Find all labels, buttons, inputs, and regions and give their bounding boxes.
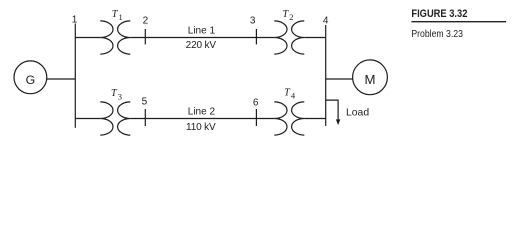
- svg-text:FIGURE 3.32: FIGURE 3.32: [411, 8, 467, 20]
- load arrowhead: [336, 119, 340, 125]
- svg-text:Problem 3.23: Problem 3.23: [411, 28, 463, 40]
- wire: generator to bus 1: [47, 78, 76, 80]
- svg-text:T2: T2: [283, 9, 294, 22]
- node 2 tick: [144, 29, 146, 44]
- transformer T3: [100, 102, 130, 135]
- svg-text:5: 5: [142, 97, 148, 108]
- svg-text:1: 1: [72, 15, 78, 26]
- node 5 tick: [144, 109, 146, 126]
- svg-text:2: 2: [143, 16, 149, 27]
- generator G: [14, 61, 47, 94]
- svg-text:T1: T1: [112, 9, 123, 22]
- svg-text:6: 6: [253, 97, 259, 108]
- load tap wire: [326, 100, 338, 120]
- wire: bus 1 to transformer T1: [75, 37, 100, 39]
- svg-text:M: M: [365, 72, 376, 87]
- motor M: [353, 60, 388, 95]
- transformer T2: [274, 21, 304, 54]
- svg-text:G: G: [26, 73, 36, 87]
- svg-text:110 kV: 110 kV: [186, 122, 216, 133]
- node 6 tick: [255, 109, 257, 126]
- wire: T1 to T2 (Line 1): [130, 37, 274, 39]
- transformer T1: [100, 21, 130, 54]
- wire: T2 to bus 4: [304, 37, 325, 39]
- svg-text:Load: Load: [346, 108, 369, 119]
- wire: T4 to bus 4: [304, 118, 325, 120]
- caption rule: [411, 21, 506, 23]
- svg-text:Line 1: Line 1: [188, 26, 216, 37]
- transformer T4: [274, 102, 304, 135]
- svg-text:220 kV: 220 kV: [186, 40, 217, 51]
- svg-text:T4: T4: [284, 88, 296, 101]
- svg-text:4: 4: [323, 16, 329, 27]
- wire: bus 4 to motor: [326, 78, 353, 80]
- wire: T3 to T4 (Line 2): [130, 118, 274, 120]
- bus 1 vertical bar: [74, 24, 76, 128]
- svg-text:3: 3: [250, 16, 256, 27]
- wire: bus 1 to transformer T3: [75, 118, 100, 120]
- node 3 tick: [255, 29, 257, 44]
- svg-text:T3: T3: [111, 88, 122, 101]
- svg-text:Line 2: Line 2: [188, 107, 216, 118]
- bus 4 vertical bar: [325, 25, 327, 126]
